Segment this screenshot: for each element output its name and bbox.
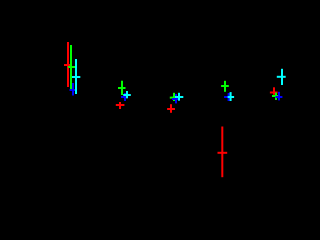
blue error bar, cluster A bbox=[70, 83, 77, 96]
blue error bar, cluster E bbox=[276, 92, 283, 101]
cyan error bar, cluster D bbox=[228, 92, 235, 101]
green error bar, cluster A bbox=[68, 45, 76, 89]
cyan error bar, cluster A bbox=[72, 59, 80, 94]
blue error bar, cluster C bbox=[172, 94, 180, 103]
green error bar, cluster E bbox=[272, 93, 279, 100]
green error bar, cluster B bbox=[118, 81, 126, 95]
cyan error bar, cluster E (large) bbox=[277, 69, 286, 85]
red error bar, cluster E bbox=[270, 87, 278, 95]
green error bar, cluster D bbox=[221, 81, 229, 92]
cyan error bar, cluster C bbox=[175, 93, 183, 101]
red error bar, cluster D (long) bbox=[218, 127, 228, 178]
blue error bar, cluster D bbox=[224, 93, 230, 101]
red error bar, cluster A bbox=[64, 42, 71, 87]
green error bar, cluster C bbox=[170, 93, 177, 101]
cyan error bar, cluster B bbox=[123, 91, 131, 98]
blue error bar, cluster B bbox=[121, 93, 128, 101]
red error bar, cluster C bbox=[167, 104, 175, 113]
red error bar, cluster B bbox=[116, 102, 125, 109]
